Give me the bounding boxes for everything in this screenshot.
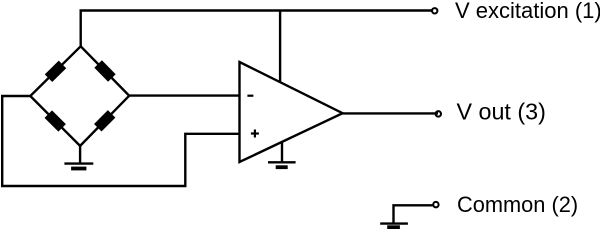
wire: bridge top vertex up and across to V excitation terminal: [81, 11, 432, 47]
wire: power supply from top rail to op-amp top edge: [279, 11, 281, 83]
wire: Common terminal left and down to ground: [394, 205, 433, 223]
svg-text:Common (2): Common (2): [457, 192, 578, 217]
strain gauge R3 (lower-left arm): [45, 110, 66, 131]
wheatstone bridge diamond: [30, 46, 129, 146]
strain gauge R4 (lower-right arm): [94, 110, 115, 131]
svg-text:V out (3): V out (3): [457, 99, 546, 125]
terminal circle Common pin 2: [433, 202, 438, 207]
strain gauge R1 (upper-left arm): [45, 61, 66, 82]
wire: bridge left vertex around to op-amp + input: [2, 96, 239, 186]
wire: bridge right vertex to op-amp - input: [129, 94, 239, 96]
strain gauge R2 (upper-right arm): [94, 60, 115, 81]
ground at Common: [380, 224, 408, 228]
ground at op-amp: [268, 142, 296, 167]
terminal circle V out pin 3: [436, 111, 441, 116]
op-amp U1 triangle: [240, 62, 343, 162]
op-amp non-inverting input '+' symbol: [251, 130, 259, 138]
terminal circle V excitation pin 1: [432, 8, 437, 13]
op-amp inverting input '-' symbol: [247, 95, 253, 97]
svg-text:V excitation (1): V excitation (1): [455, 0, 600, 23]
wire: op-amp output to V out terminal: [343, 112, 438, 114]
ground at bridge bottom vertex: [64, 146, 93, 169]
